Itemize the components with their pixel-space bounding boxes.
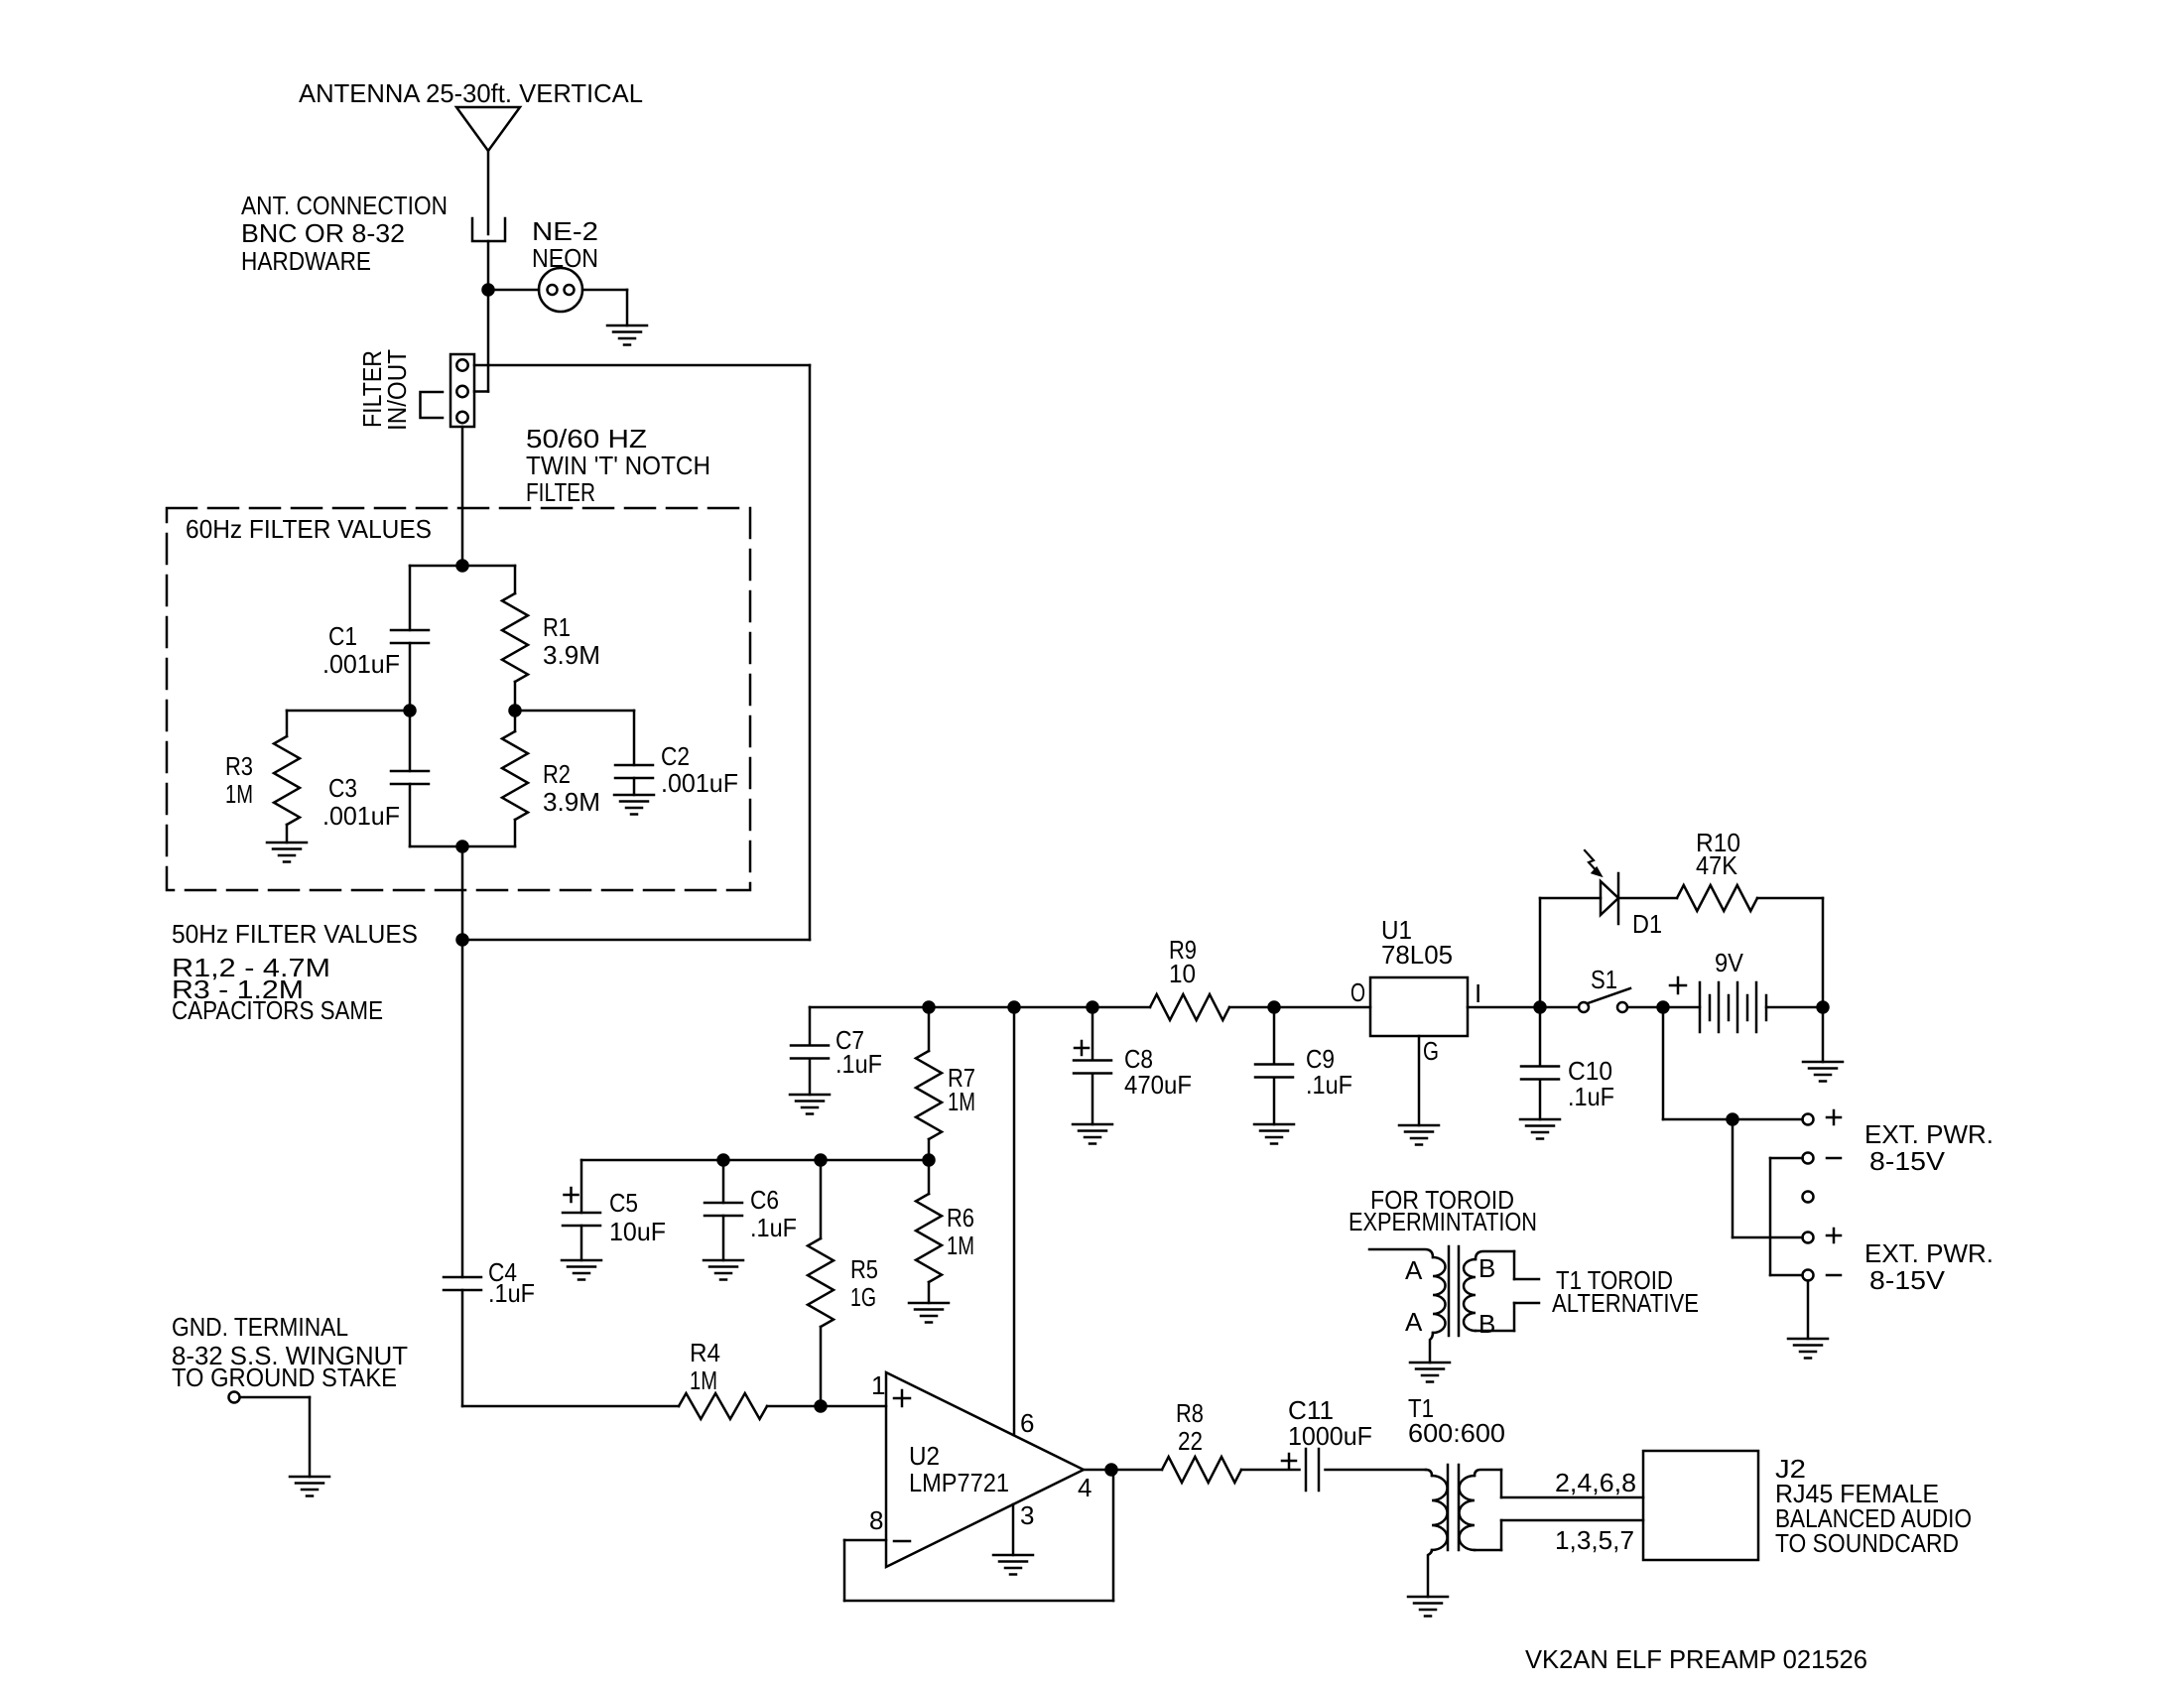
- wire C4 to R4: [462, 1405, 679, 1408]
- svg-text:A: A: [1405, 1307, 1423, 1337]
- transformer T1 primary: [1426, 1470, 1448, 1597]
- wire LED to R10: [1618, 897, 1677, 900]
- pin label I: [1475, 978, 1481, 1008]
- label R2 3.9M: [543, 759, 600, 817]
- svg-text:10: 10: [1169, 959, 1196, 988]
- svg-text:EXPERMINTATION: EXPERMINTATION: [1349, 1207, 1537, 1236]
- label NE-2 NEON: [532, 216, 598, 273]
- node C9 junction: [1269, 1002, 1280, 1013]
- svg-text:B: B: [1478, 1309, 1495, 1339]
- label C3 .001uF: [322, 773, 400, 831]
- label A A windings: [1405, 1255, 1423, 1337]
- ground terminal earth: [290, 1477, 329, 1496]
- svg-text:O: O: [1350, 977, 1365, 1007]
- wire U1 ground pin: [1418, 1036, 1421, 1125]
- label R3 1M: [225, 751, 253, 809]
- ground battery: [1803, 1062, 1843, 1082]
- label C11 1000uF: [1288, 1395, 1372, 1451]
- polarity plus C11: [1282, 1454, 1296, 1468]
- svg-text:.1uF: .1uF: [1306, 1070, 1352, 1100]
- svg-text:470uF: 470uF: [1124, 1070, 1192, 1100]
- polarity plus battery: [1670, 977, 1686, 993]
- ground C7: [790, 1095, 830, 1114]
- switch S1: [1579, 988, 1630, 1012]
- svg-text:1M: 1M: [690, 1365, 717, 1395]
- node ext pwr junction: [1728, 1114, 1738, 1125]
- label C9 .1uF: [1306, 1044, 1352, 1100]
- wire bias bus: [581, 1160, 929, 1213]
- polarity plus C5: [565, 1188, 578, 1202]
- label R7 1M: [948, 1063, 975, 1116]
- svg-text:ANTENNA 25-30ft. VERTICAL: ANTENNA 25-30ft. VERTICAL: [299, 78, 643, 108]
- wire battery node to ground: [1822, 1007, 1825, 1062]
- label T1 600:600: [1408, 1393, 1505, 1448]
- capacitor C3: [391, 711, 429, 846]
- wire C11 to T1: [1326, 1469, 1427, 1472]
- wire filter bottom bus: [410, 845, 515, 848]
- label C1 .001uF: [322, 621, 400, 679]
- svg-text:22: 22: [1178, 1426, 1203, 1456]
- ground toroid primary: [1410, 1363, 1450, 1382]
- label R1 3.9M: [543, 612, 600, 670]
- node battery plus junction: [1658, 1002, 1669, 1013]
- ground C8: [1073, 1124, 1112, 1144]
- node output junction: [1106, 1465, 1117, 1476]
- svg-text:I: I: [1475, 978, 1481, 1008]
- transformer T1 secondary: [1460, 1470, 1644, 1550]
- svg-text:1000uF: 1000uF: [1288, 1421, 1372, 1451]
- svg-text:8: 8: [869, 1505, 883, 1535]
- capacitor C4: [444, 1277, 481, 1406]
- label S1: [1591, 965, 1617, 994]
- wire minus terminal to ground: [1807, 1281, 1810, 1340]
- svg-text:78L05: 78L05: [1381, 940, 1453, 970]
- wire antenna to connector: [487, 151, 490, 234]
- wire rail down to opamp pin6: [1013, 1007, 1016, 1435]
- toroid transformer primary: [1369, 1249, 1446, 1363]
- label T1 TOROID ALTERNATIVE: [1552, 1265, 1699, 1318]
- svg-text:C5: C5: [609, 1188, 638, 1218]
- label R10 47K: [1696, 828, 1740, 880]
- wire C9 junction to U1: [1274, 1006, 1370, 1009]
- transformer T1 core: [1448, 1465, 1459, 1550]
- terminal ext pwr 2 minus: [1803, 1270, 1814, 1281]
- capacitor C11: [1306, 1449, 1319, 1491]
- ground C2: [614, 795, 654, 815]
- connector ANT. CONNECTION BNC: [472, 218, 505, 241]
- svg-text:EXT. PWR.: EXT. PWR.: [1864, 1238, 1993, 1268]
- polarity labels ext pwr: [1827, 1110, 1841, 1275]
- label 50/60 HZ TWIN T NOTCH FILTER: [526, 424, 710, 507]
- label B B windings: [1478, 1253, 1495, 1339]
- label FOR TOROID EXPERMINTATION: [1349, 1185, 1537, 1236]
- svg-text:60Hz FILTER VALUES: 60Hz FILTER VALUES: [186, 514, 432, 544]
- svg-text:A: A: [1405, 1255, 1423, 1285]
- svg-text:C1: C1: [328, 621, 357, 651]
- node C8 junction: [1088, 1002, 1098, 1013]
- svg-text:.1uF: .1uF: [1568, 1082, 1614, 1111]
- battery 9V: [1700, 982, 1766, 1032]
- svg-text:NE-2: NE-2: [532, 216, 598, 246]
- svg-text:50/60 HZ: 50/60 HZ: [526, 424, 647, 454]
- svg-text:R1: R1: [543, 612, 571, 642]
- label R4 1M: [690, 1338, 720, 1395]
- wire U1 input to switch: [1468, 1006, 1579, 1009]
- header FILTER IN/OUT 3-pin: [450, 354, 474, 427]
- svg-text:.001uF: .001uF: [661, 768, 738, 798]
- capacitor C7: [791, 1046, 829, 1096]
- svg-text:10uF: 10uF: [609, 1217, 666, 1246]
- wire feedback pin 8 to output: [844, 1470, 1113, 1601]
- label R6 1M: [947, 1203, 974, 1260]
- LED light arrow: [1585, 850, 1601, 875]
- wire ext junction down to second plus: [1733, 1119, 1803, 1237]
- resistor R2: [502, 711, 528, 846]
- label C5 10uF: [609, 1188, 666, 1246]
- antenna symbol 25-30ft vertical: [456, 107, 520, 151]
- capacitor C5: [563, 1213, 600, 1260]
- terminal ext pwr 1 plus: [1803, 1114, 1814, 1125]
- wire rail up to LED branch: [1540, 898, 1601, 1007]
- ground C6: [704, 1260, 743, 1280]
- pin label O: [1350, 977, 1365, 1007]
- svg-text:R8: R8: [1176, 1398, 1204, 1428]
- label wires 2,4,6,8: [1555, 1468, 1636, 1497]
- svg-text:C2: C2: [661, 741, 690, 771]
- resistor R3: [274, 711, 300, 843]
- node C10 junction: [1535, 1002, 1546, 1013]
- wire mid-right to C2: [515, 711, 634, 765]
- svg-text:VK2AN ELF PREAMP 021526: VK2AN ELF PREAMP 021526: [1525, 1644, 1867, 1674]
- wire filter output down: [461, 846, 464, 940]
- minus input symbol: [894, 1540, 910, 1543]
- svg-text:HARDWARE: HARDWARE: [241, 246, 371, 276]
- label D1: [1632, 909, 1662, 939]
- svg-text:R6: R6: [947, 1203, 974, 1233]
- ground T1 primary: [1408, 1597, 1448, 1617]
- node filter bottom junction: [457, 842, 468, 852]
- label J2 RJ45 FEMALE BALANCED AUDIO TO SOUNDCARD: [1775, 1454, 1972, 1558]
- wire ground terminal: [240, 1397, 310, 1477]
- label C10 .1uF: [1568, 1056, 1614, 1111]
- svg-text:3.9M: 3.9M: [543, 640, 600, 670]
- label C6 .1uF: [750, 1185, 797, 1242]
- ground C9: [1254, 1124, 1294, 1144]
- label C7 .1uF: [835, 1025, 882, 1079]
- svg-text:47K: 47K: [1696, 850, 1738, 880]
- capacitor C10: [1521, 1007, 1559, 1119]
- resistor R6: [916, 1160, 942, 1303]
- svg-text:G: G: [1423, 1036, 1439, 1066]
- capacitor C6: [705, 1160, 742, 1260]
- svg-text:1M: 1M: [225, 779, 253, 809]
- title VK2AN ELF PREAMP 021526: [1525, 1644, 1867, 1674]
- resistor R10: [1677, 885, 1823, 1007]
- label R5 1G: [850, 1254, 878, 1312]
- wire minus bus: [1770, 1158, 1803, 1275]
- label GND. TERMINAL block: [172, 1312, 408, 1392]
- label FILTER IN/OUT rotated: [357, 349, 412, 431]
- label 9V: [1715, 948, 1744, 977]
- LED D1: [1601, 873, 1618, 924]
- svg-text:B: B: [1478, 1253, 1495, 1283]
- node C6 junction: [718, 1155, 729, 1166]
- connector J2 RJ45 box: [1643, 1451, 1758, 1560]
- wire node A down to header pin 2: [474, 290, 488, 392]
- pin 4 label: [1078, 1473, 1092, 1502]
- ground C5: [562, 1260, 601, 1280]
- node A junction antenna/neon: [483, 285, 494, 296]
- capacitor C9: [1255, 1007, 1293, 1124]
- wire header pin3 down to filter input node: [461, 427, 464, 566]
- pin 1 label: [871, 1370, 885, 1400]
- label C4 .1uF: [488, 1257, 535, 1308]
- wire bypass top pin around filter: [462, 365, 810, 940]
- svg-text:50Hz FILTER VALUES: 50Hz FILTER VALUES: [172, 919, 418, 949]
- terminal ground stake: [229, 1392, 240, 1403]
- ground C10: [1520, 1119, 1560, 1139]
- svg-text:6: 6: [1020, 1408, 1034, 1438]
- resistor R8: [1162, 1457, 1300, 1483]
- wire mid-left to R3: [287, 710, 410, 713]
- svg-text:.001uF: .001uF: [322, 649, 400, 679]
- svg-text:R2: R2: [543, 759, 571, 789]
- node opamp supply junction: [1009, 1002, 1020, 1013]
- node filter input junction: [457, 561, 468, 572]
- node battery minus junction: [1818, 1002, 1829, 1013]
- label 60Hz FILTER VALUES: [186, 514, 432, 544]
- resistor R5: [808, 1160, 834, 1406]
- toroid core: [1449, 1246, 1459, 1336]
- svg-text:BNC OR 8-32: BNC OR 8-32: [241, 218, 405, 248]
- capacitor C1: [391, 566, 429, 711]
- svg-text:EXT. PWR.: EXT. PWR.: [1864, 1119, 1993, 1149]
- ground ext pwr: [1788, 1339, 1828, 1359]
- svg-text:GND. TERMINAL: GND. TERMINAL: [172, 1312, 348, 1342]
- svg-text:1M: 1M: [948, 1087, 975, 1116]
- label R9 10: [1169, 935, 1197, 988]
- svg-text:3: 3: [1020, 1500, 1034, 1530]
- svg-text:U2: U2: [909, 1441, 940, 1471]
- dashed box 60Hz filter values: [167, 508, 750, 890]
- svg-text:.001uF: .001uF: [322, 801, 400, 831]
- label U1 78L05: [1381, 915, 1453, 970]
- node non-inverting input junction: [816, 1401, 827, 1412]
- wire pin 3 to ground: [1012, 1504, 1015, 1555]
- svg-text:TO GROUND STAKE: TO GROUND STAKE: [172, 1363, 397, 1392]
- svg-text:C6: C6: [750, 1185, 779, 1215]
- ground opamp: [993, 1555, 1033, 1575]
- svg-text:2,4,6,8: 2,4,6,8: [1555, 1468, 1636, 1497]
- node bias bus right junction: [924, 1155, 935, 1166]
- svg-text:NEON: NEON: [532, 243, 598, 273]
- svg-text:8-15V: 8-15V: [1869, 1146, 1946, 1176]
- label C2 .001uF: [661, 741, 738, 798]
- jumper bracket on header pins 2-3: [421, 392, 444, 418]
- pin 3 label: [1020, 1500, 1034, 1530]
- wire neon to ground: [582, 290, 627, 325]
- node left mid junction: [405, 706, 416, 716]
- svg-text:IN/OUT: IN/OUT: [382, 349, 412, 431]
- label 50Hz FILTER VALUES block: [172, 919, 418, 1025]
- svg-text:1,3,5,7: 1,3,5,7: [1555, 1525, 1634, 1555]
- svg-text:R4: R4: [690, 1338, 720, 1367]
- resistor R1: [502, 566, 528, 711]
- wire power rail left: [810, 1007, 1150, 1045]
- svg-text:600:600: 600:600: [1408, 1418, 1505, 1448]
- ground U1: [1399, 1125, 1439, 1145]
- terminal ext pwr 1 minus: [1803, 1153, 1814, 1164]
- ground R6: [909, 1303, 949, 1323]
- svg-text:LMP7721: LMP7721: [909, 1468, 1009, 1497]
- label wires 1,3,5,7: [1555, 1525, 1634, 1555]
- label C8 470uF: [1124, 1044, 1192, 1100]
- label ANTENNA 25-30ft. VERTICAL: [299, 78, 643, 108]
- svg-text:9V: 9V: [1715, 948, 1744, 977]
- wire node A to neon: [488, 289, 539, 292]
- svg-text:TWIN 'T' NOTCH: TWIN 'T' NOTCH: [526, 451, 710, 480]
- terminal ext pwr 2 plus: [1803, 1233, 1814, 1243]
- ground neon: [607, 325, 647, 345]
- svg-text:1G: 1G: [850, 1282, 876, 1312]
- resistor R9: [1150, 994, 1274, 1020]
- svg-text:1M: 1M: [947, 1231, 974, 1260]
- wire filter top bus: [410, 565, 515, 568]
- resistor R4: [679, 1393, 886, 1419]
- svg-text:R5: R5: [850, 1254, 878, 1284]
- svg-text:.1uF: .1uF: [835, 1049, 882, 1079]
- pin label G: [1423, 1036, 1439, 1066]
- label EXT. PWR. 8-15V upper: [1864, 1119, 1993, 1176]
- node right mid junction: [510, 706, 521, 716]
- plus input symbol: [894, 1390, 910, 1406]
- svg-text:R3: R3: [225, 751, 253, 781]
- pin 6 label: [1020, 1408, 1034, 1438]
- regulator U1 78L05: [1370, 977, 1468, 1036]
- ground R3: [267, 843, 307, 862]
- svg-text:.1uF: .1uF: [488, 1278, 535, 1308]
- node R7 rail junction: [924, 1002, 935, 1013]
- wire output node down to C4: [461, 940, 464, 1277]
- wire battery plus down to ext pwr: [1663, 1007, 1803, 1119]
- op-amp U2 LMP7721: [886, 1372, 1084, 1567]
- label U2 LMP7721: [909, 1441, 1009, 1497]
- neon lamp NE-2: [539, 268, 582, 312]
- label EXT. PWR. 8-15V lower: [1864, 1238, 1993, 1295]
- resistor R7: [916, 1007, 942, 1160]
- wire battery minus to ground node: [1766, 1006, 1823, 1009]
- svg-text:C3: C3: [328, 773, 357, 803]
- svg-text:FILTER: FILTER: [526, 477, 595, 507]
- svg-text:D1: D1: [1632, 909, 1662, 939]
- svg-text:TO SOUNDCARD: TO SOUNDCARD: [1775, 1528, 1959, 1558]
- svg-text:S1: S1: [1591, 965, 1617, 994]
- capacitor C8: [1074, 1007, 1111, 1124]
- wire connector to node A: [487, 241, 490, 290]
- svg-text:4: 4: [1078, 1473, 1092, 1502]
- svg-text:ANT. CONNECTION: ANT. CONNECTION: [241, 191, 448, 220]
- svg-text:ALTERNATIVE: ALTERNATIVE: [1552, 1288, 1699, 1318]
- terminal spare: [1803, 1192, 1814, 1203]
- wire switch to battery plus: [1627, 1006, 1700, 1009]
- label ANT. CONNECTION BNC OR 8-32 HARDWARE: [241, 191, 448, 276]
- svg-text:3.9M: 3.9M: [543, 787, 600, 817]
- capacitor C2: [615, 765, 653, 795]
- label R8 22: [1176, 1398, 1204, 1456]
- svg-text:.1uF: .1uF: [750, 1213, 797, 1242]
- pin 8 label: [869, 1505, 883, 1535]
- polarity plus C8: [1075, 1041, 1089, 1055]
- svg-text:CAPACITORS SAME: CAPACITORS SAME: [172, 995, 383, 1025]
- node bypass/output junction: [457, 935, 468, 946]
- node R5 top junction: [816, 1155, 827, 1166]
- svg-text:1: 1: [871, 1370, 885, 1400]
- svg-text:8-15V: 8-15V: [1869, 1265, 1946, 1295]
- wire opamp output: [1084, 1469, 1162, 1472]
- toroid transformer secondary: [1464, 1251, 1539, 1331]
